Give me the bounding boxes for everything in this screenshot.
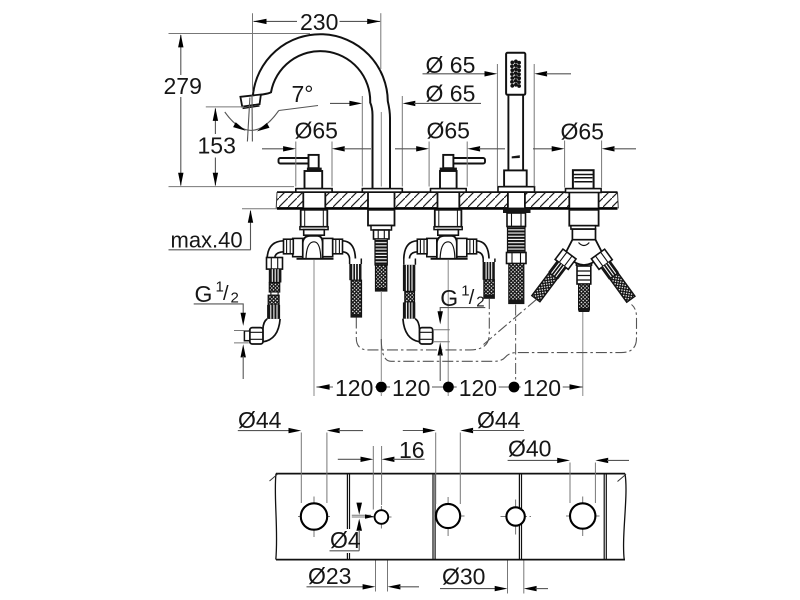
svg-text:Ø65: Ø65 [561,119,604,145]
template hole circle B (handle M) [432,497,465,536]
svg-text:Ø30: Ø30 [442,564,485,590]
spout (C-shaped tube) [253,34,390,188]
svg-text:16: 16 [399,437,425,463]
valve L bottom elbow to G1/2 [244,319,280,344]
svg-text:/: / [223,283,229,305]
valve M left elbow [404,241,418,259]
valve M elbow to G1/2 [403,319,433,344]
svg-text:Ø23: Ø23 [308,563,351,589]
svg-text:120: 120 [523,375,561,401]
valve L right elbow [343,241,356,259]
hand shower holder [498,170,535,192]
template hole circle D (diverter) [566,497,600,537]
template joint lines [347,474,606,560]
svg-text:120: 120 [459,375,497,401]
valve L left hose chain [267,258,283,319]
dim O65 hand shower [423,52,572,187]
hand shower hose below deck [503,208,531,303]
handle M lever [431,155,486,192]
template hole circle C (hand shower) [501,500,532,535]
svg-text:Ø4: Ø4 [330,527,361,553]
phantom hose routing: spout to diverter right branch [381,305,636,362]
drilling template strip [270,474,627,560]
dim O30 [440,561,548,594]
deck hole for diverter [569,193,598,208]
dim O44 left [238,407,363,503]
dim max.40 [169,209,278,253]
deck hole for handle L [303,193,325,208]
dim 153 [198,107,245,186]
diverter body below deck [566,210,603,266]
dim O65 spout [330,81,481,187]
spout aerator tip [240,95,261,109]
hand shower hose centerline (phantom) [515,305,517,384]
svg-text:Ø 65: Ø 65 [426,81,476,107]
deck hole for spout [368,193,395,208]
handle L lever [279,155,333,192]
svg-text:120: 120 [392,375,430,401]
valve M right elbow [477,241,489,259]
svg-text:Ø65: Ø65 [427,118,470,144]
deck hole for handle M [438,193,460,208]
dim O44 right [403,407,524,504]
deck cross-section (hatched mounting surface) [276,192,618,208]
valve M centerline to dim row [447,260,449,396]
dim G1/2 left [194,279,249,380]
diverter right branch hose [591,249,637,304]
svg-text:/: / [469,287,475,309]
dim 16 [338,437,425,510]
dim row 120x4 [316,375,582,401]
svg-text:Ø44: Ø44 [477,407,521,433]
dim O65 handle L [262,118,371,187]
valve M body below deck [417,210,476,259]
phantom hose routing: junction to diverter left branch [484,299,538,345]
valve L left elbow [267,241,283,258]
svg-text:G: G [195,281,213,307]
dim O4 pilot hole [330,503,375,553]
svg-text:Ø40: Ø40 [508,436,551,462]
valve L centerline to dim row [313,260,315,396]
spout shank below deck [368,210,395,291]
phantom hose routing: handle L right to handle M right [356,299,489,350]
deck hole for hand shower [508,193,525,208]
svg-text:7°: 7° [292,81,314,107]
valve M left hose chain [403,259,416,319]
spout escutcheon [362,189,402,193]
diverter centerline to dim row [582,312,584,396]
svg-text:230: 230 [300,9,338,35]
dim O65 handle M [395,118,505,187]
dim O40 [508,436,629,504]
valve L right hose [349,259,361,318]
dim 279 [164,34,311,187]
dim G1/2 right [433,283,485,382]
spout centerline to dim row [380,291,382,396]
diverter center branch hose [577,266,591,312]
valve M right hose [483,259,495,299]
svg-text:Ø 65: Ø 65 [426,52,476,78]
template small hole (spout pilot) [372,506,392,529]
svg-text:Ø65: Ø65 [295,118,338,144]
spout centerline [380,112,382,187]
dim 230 [253,9,381,92]
diverter knob [566,170,602,192]
dim O65 diverter [533,119,636,188]
svg-text:max.40: max.40 [171,227,243,252]
angle 7 deg annotation [225,81,318,141]
template hole circle A (handle L) [298,497,330,538]
svg-text:120: 120 [335,375,373,401]
hand shower head [506,53,525,95]
svg-text:279: 279 [164,73,202,99]
dim O23 [307,561,420,592]
svg-text:Ø44: Ø44 [238,407,282,433]
valve L body below deck [284,210,343,259]
svg-text:153: 153 [198,132,236,158]
diverter left branch hose [529,249,576,304]
hand shower grip [508,95,523,171]
